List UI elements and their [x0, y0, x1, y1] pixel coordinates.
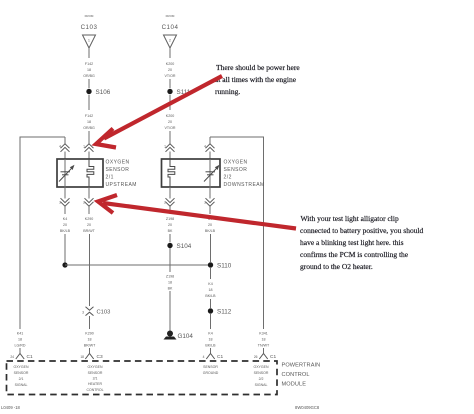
svg-text:UPSTREAM: UPSTREAM [106, 182, 137, 188]
svg-text:3: 3 [204, 201, 206, 205]
svg-text:2/2: 2/2 [224, 174, 232, 180]
svg-text:SENSOR: SENSOR [88, 371, 103, 375]
splice S110 [208, 262, 213, 267]
wire [210, 234, 212, 262]
wire [169, 131, 171, 144]
svg-text:K200: K200 [166, 114, 174, 118]
oxygen sensor 2/2 label [224, 160, 265, 188]
svg-text:HEATER: HEATER [88, 382, 102, 386]
powertrain control module name [282, 363, 321, 388]
svg-text:CONTROL: CONTROL [86, 388, 103, 392]
junction dot [62, 262, 67, 267]
svg-text:BR/WT: BR/WT [84, 344, 96, 348]
svg-text:K4: K4 [208, 282, 212, 286]
svg-text:1: 1 [83, 145, 85, 149]
heater element box1 [87, 159, 94, 187]
svg-text:SIGNAL: SIGNAL [15, 383, 28, 387]
wire [89, 316, 91, 329]
svg-text:DOWNSTREAM: DOWNSTREAM [224, 182, 265, 188]
svg-text:20: 20 [63, 223, 67, 227]
pin 3 connector chevrons box1 [64, 187, 66, 199]
pin 3 connector chevrons box2 [209, 187, 211, 199]
svg-text:With your test light alligator: With your test light alligator clip [301, 214, 399, 223]
svg-text:OXYGEN: OXYGEN [88, 365, 103, 369]
svg-text:BK: BK [168, 287, 173, 291]
svg-text:S106: S106 [96, 89, 111, 96]
splice S104 [167, 243, 172, 248]
wire label K4 20 BK/LB right [205, 217, 216, 233]
wire label K41 18 LG/RD [15, 332, 26, 348]
PCM label oxygen sensor 2/1 signal [14, 365, 29, 387]
svg-text:OXYGEN: OXYGEN [106, 160, 130, 166]
wire [169, 248, 171, 272]
svg-text:There should be power here: There should be power here [216, 63, 300, 72]
svg-text:S112: S112 [217, 309, 232, 316]
svg-text:K290: K290 [85, 217, 93, 221]
wire label K341 18 TN/WT [258, 332, 270, 348]
pin 2 connector chevrons box2 [169, 187, 171, 199]
svg-text:VT/OR: VT/OR [165, 126, 176, 130]
wire to ground [169, 291, 171, 331]
svg-text:running.: running. [215, 87, 240, 96]
svg-text:F142: F142 [85, 62, 93, 66]
PCM label sensor ground [203, 365, 219, 375]
svg-text:2: 2 [169, 39, 171, 43]
svg-text:4: 4 [59, 145, 61, 149]
splice S111 [167, 89, 172, 94]
svg-text:OR/BG: OR/BG [83, 74, 95, 78]
svg-text:connected to battery positive,: connected to battery positive, you shoul… [300, 226, 424, 235]
svg-text:2/2: 2/2 [259, 377, 264, 381]
svg-text:K4: K4 [208, 332, 212, 336]
svg-text:20: 20 [168, 68, 172, 72]
svg-text:SENSOR: SENSOR [106, 167, 130, 173]
svg-text:8W0409GC8: 8W0409GC8 [295, 405, 320, 410]
wire label K290 18 BR/WT [84, 332, 96, 348]
svg-text:1: 1 [164, 145, 166, 149]
bus wire to S110 [65, 264, 211, 266]
svg-text:BR/WT: BR/WT [83, 229, 95, 233]
wire F142 top [88, 48, 90, 58]
svg-text:Z198: Z198 [166, 275, 174, 279]
svg-text:18: 18 [18, 338, 22, 342]
svg-text:VT/OR: VT/OR [165, 74, 176, 78]
svg-text:3: 3 [59, 201, 61, 205]
wire label F142 18 OR/BG (upper) [83, 62, 95, 78]
sensor element box2 [204, 167, 218, 182]
wire [88, 79, 90, 88]
svg-text:C1: C1 [27, 354, 33, 360]
svg-text:26: 26 [254, 355, 258, 359]
wire label F142 18 OR/BG (lower) [83, 114, 95, 130]
heater element box2 [168, 159, 175, 187]
svg-text:at all times with the engine: at all times with the engine [215, 75, 297, 84]
wire Z198 down [169, 234, 171, 242]
wire label K290 20 BR/WT [83, 217, 95, 233]
svg-text:TN/WT: TN/WT [258, 344, 270, 348]
splice S112 [208, 308, 213, 313]
svg-text:confirms the PCM is controllin: confirms the PCM is controlling the [300, 250, 409, 259]
svg-text:2: 2 [83, 201, 85, 205]
wire [169, 95, 171, 110]
svg-text:BK/LB: BK/LB [60, 229, 71, 233]
svg-text:18: 18 [80, 355, 84, 359]
svg-text:20: 20 [87, 223, 91, 227]
wire [169, 79, 171, 88]
wire K200 top [169, 48, 171, 58]
wire label K200 20 VT/OR (lower) [165, 114, 176, 130]
svg-text:18: 18 [87, 68, 91, 72]
svg-text:20: 20 [168, 120, 172, 124]
wire through box1 left [64, 159, 66, 187]
svg-text:K341: K341 [259, 332, 267, 336]
svg-text:3: 3 [82, 311, 84, 315]
oxygen sensor 2/1 label [106, 160, 137, 188]
svg-text:G104: G104 [178, 333, 194, 340]
svg-text:C1: C1 [270, 354, 276, 360]
svg-text:K41: K41 [17, 332, 23, 336]
sensor element box1 [59, 167, 73, 182]
svg-text:POWERTRAIN: POWERTRAIN [282, 363, 321, 369]
wire K341 right rail [210, 137, 264, 329]
svg-text:CONTROL: CONTROL [282, 372, 310, 378]
svg-text:S104: S104 [177, 243, 192, 250]
svg-text:18: 18 [262, 338, 266, 342]
svg-text:2/1: 2/1 [106, 174, 114, 180]
svg-text:Z198: Z198 [166, 217, 174, 221]
wire label K4 18 BK/LB mid [205, 282, 216, 298]
svg-text:C3: C3 [97, 354, 103, 360]
svg-text:SENSOR: SENSOR [254, 371, 269, 375]
svg-text:ground to the O2 heater.: ground to the O2 heater. [300, 262, 373, 271]
svg-text:C103: C103 [97, 310, 111, 316]
oxygen sensor 2/2 downstream box [162, 159, 221, 187]
wire stubs to PCM pins [19, 348, 21, 353]
svg-text:24: 24 [10, 355, 14, 359]
svg-text:have a blinking test light her: have a blinking test light here. this [300, 238, 404, 247]
svg-text:2/1: 2/1 [93, 377, 98, 381]
svg-text:20: 20 [208, 223, 212, 227]
red arrow to pin2 heater control [98, 195, 296, 229]
svg-text:K290: K290 [85, 332, 93, 336]
connector triangle from C104 [164, 35, 177, 48]
wire label Z198 18 BK [166, 275, 174, 291]
wire [88, 95, 90, 110]
svg-text:K4: K4 [63, 217, 67, 221]
wire label K200 20 VT/OR (upper) [165, 62, 176, 78]
wire K290 down [89, 234, 91, 306]
svg-text:C103: C103 [81, 24, 98, 31]
pin 24 C1 [16, 354, 24, 360]
svg-text:C1: C1 [217, 354, 223, 360]
svg-text:2: 2 [164, 201, 166, 205]
svg-text:OXYGEN: OXYGEN [14, 365, 29, 369]
wire to bus [64, 234, 66, 265]
svg-text:18: 18 [209, 338, 213, 342]
svg-text:F142: F142 [85, 114, 93, 118]
svg-text:GROUND: GROUND [203, 371, 219, 375]
note: test light annotation [300, 214, 424, 271]
oxygen sensor 2/1 upstream box [57, 159, 103, 187]
svg-text:MODULE: MODULE [282, 382, 307, 388]
svg-text:4: 4 [204, 145, 206, 149]
pin 1 connector chevrons box1 [85, 144, 94, 152]
svg-text:FROM: FROM [85, 14, 94, 18]
pin 4 connector chevrons box2 [206, 144, 215, 152]
wire [88, 131, 90, 144]
svg-text:18: 18 [209, 288, 213, 292]
svg-text:SENSOR: SENSOR [14, 371, 29, 375]
PCM label oxygen sensor 2/2 signal [254, 365, 269, 387]
pin 18 C3 [85, 354, 93, 360]
powertrain control module dashed box [7, 361, 278, 395]
PCM label oxygen sensor 2/1 heater control [86, 365, 103, 392]
svg-text:18: 18 [88, 338, 92, 342]
svg-text:18: 18 [168, 281, 172, 285]
svg-text:OXYGEN: OXYGEN [224, 160, 248, 166]
svg-text:20: 20 [168, 223, 172, 227]
svg-text:SIGNAL: SIGNAL [255, 383, 268, 387]
splice S106 [86, 89, 91, 94]
svg-text:L0409 -18: L0409 -18 [1, 405, 21, 410]
wire label K4 18 BK/LB bottom [205, 332, 216, 348]
svg-text:BK: BK [168, 229, 173, 233]
pin 2 connector chevrons box1 [88, 187, 90, 199]
svg-text:18: 18 [87, 120, 91, 124]
wire [210, 314, 212, 329]
pin 4 C1 [206, 354, 214, 360]
svg-text:BK/LB: BK/LB [205, 294, 216, 298]
pin 4 connector chevrons box1 [61, 144, 70, 152]
svg-text:OR/BG: OR/BG [83, 126, 95, 130]
svg-text:C104: C104 [162, 24, 179, 31]
wire through box2 right [209, 159, 211, 187]
svg-text:OXYGEN: OXYGEN [254, 365, 269, 369]
svg-text:2/1: 2/1 [19, 377, 24, 381]
inline connector C103 [86, 307, 94, 316]
red arrow to pin1 power [96, 76, 222, 148]
svg-text:K200: K200 [166, 62, 174, 66]
svg-text:1: 1 [88, 39, 90, 43]
svg-text:BK/LB: BK/LB [205, 344, 216, 348]
wire pin4 drop box1 [64, 137, 66, 144]
pin 26 C1 [259, 354, 267, 360]
svg-text:LG/RD: LG/RD [15, 344, 26, 348]
svg-text:S110: S110 [217, 263, 232, 270]
note: power annotation [215, 63, 300, 96]
connector triangle from C103 [83, 35, 96, 48]
wire label K4 20 BK/LB [60, 217, 71, 233]
ground G104 [167, 331, 173, 337]
wire [210, 299, 212, 308]
svg-text:4: 4 [203, 355, 205, 359]
pin 1 connector chevrons box2 [166, 144, 175, 152]
wire pin4 drop box2 [209, 137, 211, 144]
wire K41 left rail [20, 137, 65, 329]
svg-text:SENSOR: SENSOR [224, 167, 248, 173]
svg-text:BK/LB: BK/LB [205, 229, 216, 233]
svg-text:SENSOR: SENSOR [203, 365, 218, 369]
wire label Z198 20 BK [166, 217, 174, 233]
svg-text:FROM: FROM [166, 14, 175, 18]
